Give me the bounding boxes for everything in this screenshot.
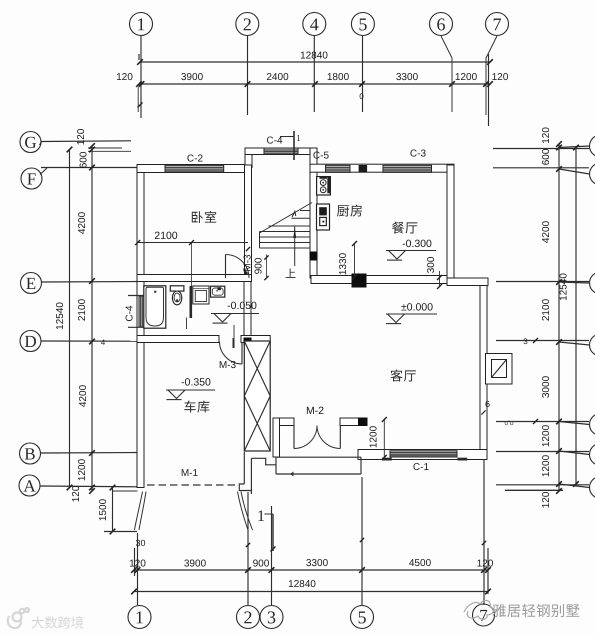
watermark text 雅居轻钢别墅 [492, 604, 505, 617]
bottom edge line left (A+120) [113, 490, 138, 492]
grid axis circle 4 (top) [303, 13, 326, 36]
dimension text 1330 [339, 253, 346, 274]
flue box on living east wall [486, 354, 513, 385]
dimension tick (bottom chain) [131, 567, 137, 573]
column stair south-east [310, 252, 317, 260]
label M-3 (bedroom) [244, 255, 251, 271]
dimension tick (right chain) [556, 339, 562, 345]
wall living south (B) [358, 450, 487, 460]
dimension tick (left chain) [89, 147, 95, 153]
grid axis circle (right, clipped) [590, 334, 595, 356]
window C-4 sill cap bottom [128, 326, 145, 328]
grid axis circle 3 (bottom) [260, 606, 283, 629]
dimension text 3000 (right) [542, 376, 549, 397]
wall grid2 bath east [244, 281, 251, 338]
dimension text 120 (left bottom) [72, 486, 79, 502]
door M-2 right leaf [339, 426, 341, 449]
stray mark 4 [101, 339, 105, 345]
grid line D (left segment) [41, 340, 137, 342]
dimension line 1330 (kitchen) [354, 244, 356, 278]
dimension tick (top chain) [359, 81, 365, 87]
break tick on extension grid5 [360, 538, 364, 542]
dimension line 300 (dining step) [439, 271, 441, 287]
grid axis circle 2 (top) [236, 13, 259, 36]
dimension text 12840 (bottom) [289, 580, 316, 587]
dimension tick (top chain) [483, 81, 489, 87]
wall grid2 bedroom east [245, 165, 252, 281]
dimension tick (right chain) [556, 448, 562, 454]
column pier between C-5 and C-3 [359, 165, 368, 173]
wall kitchen west (grid4) [310, 167, 317, 252]
dimension tick (top chain) [449, 81, 455, 87]
dimension text 120 (right bottom) [542, 492, 549, 508]
level mark -0.050 (hall) [228, 302, 257, 309]
grid line G (right segment) [493, 148, 589, 150]
dimension text 120 (bottom left) [130, 560, 146, 567]
grid axis circle E (left) [21, 273, 42, 294]
dimension tick (left chain) [89, 143, 95, 149]
tick on living east wall [481, 410, 485, 414]
wall dining south (E) [311, 276, 447, 284]
break tick on extension grid7 [482, 541, 486, 545]
window C-2 bedroom north [165, 165, 224, 172]
washing machine [193, 286, 209, 304]
dimension tick (left chain) [89, 165, 95, 171]
dimension tick (left chain) [89, 278, 95, 284]
grid line A (left segment) [40, 485, 137, 488]
stair upper tread 1 [300, 210, 310, 212]
extension line bath divider [191, 243, 193, 287]
dimension tick (bottom chain) [135, 567, 141, 573]
window C-1 jamb sill west [382, 458, 392, 461]
wall entry porch west [273, 418, 280, 457]
extension line grid 2 (bottom) [247, 492, 249, 605]
dimension tick (top chain) [136, 81, 142, 87]
grid line B (left segment) [41, 452, 138, 455]
overall dimension line 12540 (right) [575, 148, 577, 485]
window C-1 living south [390, 451, 457, 457]
dimension text 900 (bottom) [253, 560, 269, 567]
driveway east edge outer [241, 492, 253, 531]
grid leader line 6 (top, bent) [441, 36, 452, 112]
stair tread left edge [259, 232, 261, 249]
dimension tick (bottom chain) [485, 567, 491, 573]
dimension text 12540 (left) [56, 303, 63, 330]
grid leader line 2 (top) [247, 36, 249, 115]
stray marks near C line [505, 420, 514, 425]
chimney shaft with cross bracing [244, 341, 270, 451]
grid axis circle (right, clipped) [590, 135, 595, 157]
dimension text 2100 (right) [542, 299, 549, 320]
extension line right edge (bottom) [487, 548, 489, 594]
dimension tick (bottom chain) [245, 567, 251, 573]
grid leader line 5 (top) [362, 36, 364, 112]
label C-5 [313, 152, 328, 159]
grid line C (right segment) [496, 421, 589, 423]
door M-3 bedroom leaf [225, 255, 227, 279]
door M-2 right swing arc [317, 426, 340, 449]
dimension tick (top chain) [139, 81, 145, 87]
dimension text 1500 [99, 499, 106, 520]
step south of shaft [251, 458, 276, 465]
wall stair bay right [310, 148, 317, 168]
column grid2/D [244, 338, 251, 345]
dimension text 1200 (right lower) [542, 455, 549, 476]
wall bedroom south (E) [137, 275, 252, 282]
section mark 1 (bottom) [272, 514, 274, 551]
wall step south of dining [447, 278, 488, 286]
wall stair bay top (G) [245, 148, 317, 155]
grid axis circle (right, clipped) [590, 477, 595, 499]
stair treads lower flight [269, 225, 311, 227]
dimension tick (top chain) [487, 81, 493, 87]
grid line A (right segment) [496, 484, 589, 486]
wall bath south east stub (D) [241, 336, 270, 343]
porch slab west edge [275, 457, 277, 474]
stair upper arrow mark [292, 212, 296, 218]
overall dimension line 12840 (top) [140, 61, 491, 63]
dimension text 2400 [267, 73, 288, 80]
wall left exterior [137, 165, 144, 488]
grid leader line (right) [559, 422, 590, 425]
wall entry west of door M-2 (C) [273, 418, 294, 426]
label C-4 (bay) [267, 137, 282, 144]
column grid5/E [352, 274, 366, 287]
chain dimension line (bottom) [134, 569, 488, 571]
grid line E (right segment) [496, 281, 589, 283]
kitchen appliance with dot [320, 217, 327, 225]
wall kitchen west lower segment [310, 260, 317, 278]
dimension text 12840 (top) [301, 52, 328, 59]
grid leader line (right) [559, 484, 590, 488]
stray mark 3 [524, 338, 528, 344]
door M-3 bedroom swing arc [226, 255, 250, 279]
window C-4 bath west [139, 296, 145, 327]
label up 上 [286, 268, 296, 277]
grid axis circle 7 (top) [486, 13, 509, 36]
dimension text 1200 (right) [542, 425, 549, 446]
porch slab lower edge [276, 473, 361, 475]
wall kitchen-dining top (F) [310, 164, 454, 172]
wall bath divider [190, 286, 193, 318]
dimension tick mid extension grid1 [138, 103, 143, 108]
grid axis circle (right, clipped) [590, 163, 595, 185]
stray mark 30 [136, 540, 145, 546]
grid axis circle B (left) [20, 443, 41, 464]
dimension text 120 (bottom right) [477, 560, 493, 567]
window C-3 dining north [383, 165, 432, 172]
overall dimension line 12540 (left) [69, 150, 71, 488]
wall stair bay left [245, 148, 252, 168]
extension line left wall outer edge (top) [138, 54, 140, 60]
stair upper tread 2 [292, 217, 311, 219]
wall dining east (grid6) [447, 165, 454, 279]
grid axis circle (right, clipped) [590, 272, 595, 294]
window C-4 sill cap top [128, 295, 145, 297]
grid axis circle 6 (top) [430, 13, 453, 36]
stray mark 6 [485, 401, 489, 407]
label C-1 [413, 463, 428, 470]
grid axis circle A (left) [19, 475, 40, 496]
grid axis circle 2 (bottom) [237, 606, 260, 629]
dimension text 600 (left) [80, 152, 87, 168]
dimension text 1200 (left lower) [78, 459, 85, 480]
level mark -0.300 (dining) [403, 240, 432, 247]
level mark -0.350 (garage) [182, 378, 211, 385]
grid axis circle 7 (bottom) [473, 604, 495, 626]
wall bath south west part (D) [137, 336, 219, 343]
dimension text 1800 [328, 73, 349, 80]
kitchen stove [317, 177, 331, 195]
room label 餐厅 (dining) [392, 222, 404, 234]
porch slab upper edge [276, 456, 361, 458]
wall bedroom top (F) [137, 165, 252, 173]
dimension tick (right chain) [556, 419, 562, 425]
label M-1 [182, 469, 198, 476]
dimension line 1200 (entry) [383, 420, 385, 458]
dimension tick (bottom chain) [481, 567, 487, 573]
stair direction line [294, 226, 296, 266]
driveway bottom extension stub [104, 531, 137, 533]
dimension line 1500 (driveway depth) [112, 488, 114, 532]
wall garage south jamb east [243, 452, 245, 484]
grid leader line 4 (top) [313, 36, 315, 112]
extension line M-3 bath [233, 325, 235, 348]
porch arrow mark [290, 472, 294, 477]
dimension tick (left chain) [89, 450, 95, 456]
extension line left edge (bottom) [134, 548, 136, 576]
dimension tick (left chain) [89, 488, 95, 494]
grid leader line (right) [559, 282, 590, 283]
extension line bay outer (left) [88, 147, 122, 149]
grid line G leader (left) [41, 140, 131, 143]
room label 厨房 (kitchen) [337, 205, 349, 216]
label C-3 [410, 150, 425, 157]
wall living east (grid7) [480, 286, 487, 459]
tick on grid line D [533, 338, 538, 343]
dimension text 1200 (entry) [370, 426, 377, 447]
grid line F (left segment) [41, 167, 137, 169]
grid leader line (right) [559, 146, 590, 148]
window C-4 stair bay [264, 148, 298, 155]
grid axis circle F (left) [21, 168, 42, 189]
dimension text 1200 [456, 73, 477, 80]
extension line grid 3 (bottom) [271, 506, 273, 605]
driveway east edge inner [238, 492, 249, 531]
grid axis circle D (left) [20, 331, 41, 352]
grid line F leader bend [40, 168, 47, 175]
grid axis circle (right, clipped) [590, 444, 595, 466]
dimension text 4200 (right) [542, 221, 549, 243]
grid axis circle 5 (top) [351, 13, 374, 36]
extension line grid 1 (bottom) [137, 533, 139, 605]
dimension tick (top chain) [245, 81, 251, 87]
dimension text 3300 (bottom) [306, 559, 327, 566]
dimension tick (left chain) [89, 485, 95, 491]
break tick on extension grid2 [246, 543, 250, 547]
watermark text 大数跨境 [32, 616, 44, 628]
window C-1 jamb sill east [457, 458, 467, 461]
room label 卧室 (bedroom) [192, 211, 203, 223]
garage SE corner jog [239, 484, 251, 491]
porch slab east edge [360, 457, 362, 474]
dimension tick (right chain) [556, 145, 562, 151]
watermark flower bottom-right [464, 600, 494, 619]
chain dimension line (left) [91, 146, 93, 491]
dimension text 120 [117, 73, 133, 80]
driveway west edge outer [135, 492, 143, 531]
dimension tick (left chain) [89, 339, 95, 345]
grid line B (right segment) [496, 451, 589, 453]
dimension text 3900 (bottom) [184, 560, 205, 567]
dimension text 3300 [396, 73, 417, 80]
dimension text 120 (right top) [542, 128, 549, 144]
bath door leaf [186, 318, 188, 330]
label C-2 [187, 155, 202, 162]
bottom edge line (right) [505, 489, 563, 491]
dimension text 120 (right) [492, 73, 508, 80]
dimension tick (bottom chain) [359, 567, 365, 573]
chain dimension line (right) [558, 144, 560, 491]
dimension tick (right chain) [556, 481, 562, 487]
grid leader line (right) [559, 451, 590, 455]
section mark 1 (top) [293, 131, 295, 160]
wash basin [211, 286, 225, 297]
grid leader line 7 (top, bent) [486, 36, 497, 115]
dimension text 4200 (left lower) [79, 385, 86, 407]
label M-2 [307, 407, 324, 414]
dimension tick (top chain) [312, 81, 318, 87]
grid line G (left segment) [88, 150, 131, 152]
dimension text 4500 (bottom) [409, 559, 431, 566]
dimension text 12540 (right) [560, 274, 567, 301]
grid line E (left segment) [42, 281, 138, 284]
dimension tick (right chain) [556, 488, 562, 494]
grid line G leader bend [40, 142, 42, 145]
kitchen refrigerator (black) [319, 207, 327, 215]
dimension tick (right chain) [556, 166, 562, 172]
door M-2 left swing arc [294, 426, 317, 449]
wall entry east of door M-2 (C) [340, 418, 359, 426]
level mark ±0.000 (living) [401, 303, 432, 310]
dimension line 900 (door M-3) [266, 255, 268, 279]
dimension text 120 (left top) [77, 129, 84, 145]
driveway west edge inner [139, 492, 146, 531]
door M-2 left leaf [293, 426, 295, 449]
dimension text 300 (dining) [427, 257, 434, 273]
overall dimension line 12840 (bottom) [134, 591, 488, 593]
grid leader line (right) [559, 169, 590, 174]
dimension text 900 (door M-3) [255, 258, 262, 274]
column entry east (C) [359, 418, 368, 426]
section label 1 (top) [297, 135, 300, 141]
dimension tick (bottom chain) [269, 567, 275, 573]
door M-3 garage swing arc [220, 342, 243, 365]
grid leader line 1 (top) [140, 36, 142, 119]
bathtub [144, 286, 166, 328]
dimension text 2100 (bedroom) [155, 232, 177, 239]
label C-4 (bath) [126, 306, 133, 321]
dimension text 600 (right) [542, 149, 549, 165]
grid axis circle (right, clipped) [590, 414, 595, 436]
extension line wall outer grid1 (top) [137, 87, 139, 112]
room label 车库 (garage) [184, 401, 195, 413]
dimension text 3900 [181, 73, 202, 80]
dimension text 4200 (left) [78, 212, 85, 234]
extension line right wall outer edge (top) [488, 54, 490, 126]
stair break diagonal [260, 203, 313, 234]
grid line F (right segment) [493, 167, 589, 169]
grid leader line (right) [559, 342, 590, 345]
label M-3 (garage) [220, 361, 236, 368]
window C-5 kitchen north [326, 165, 351, 172]
grid axis circle G (left) [20, 132, 41, 153]
dimension line 2100 (bedroom) [138, 242, 248, 244]
chain dimension line (top) [139, 83, 490, 85]
grid axis circle 5 (bottom) [351, 606, 374, 629]
grid line D (right segment) [496, 340, 589, 342]
dimension text 2100 (left) [78, 299, 85, 320]
grid axis circle 1 (bottom) [128, 606, 151, 629]
room label 客厅 (living) [390, 369, 402, 381]
toilet [170, 286, 184, 291]
stray mark 0 [360, 93, 364, 99]
dimension tick (right chain) [556, 141, 562, 147]
watermark logo bottom-left [8, 608, 29, 628]
tick on grid line C [533, 419, 538, 424]
extension line grid 7 (bottom) [483, 460, 485, 605]
extension line grid 5 (bottom) [361, 477, 363, 605]
grid axis circle 1 (top) [130, 13, 153, 36]
door M-1 garage dashed [147, 484, 238, 486]
dimension tick (right chain) [556, 279, 562, 285]
kitchen counter unit [317, 204, 330, 230]
